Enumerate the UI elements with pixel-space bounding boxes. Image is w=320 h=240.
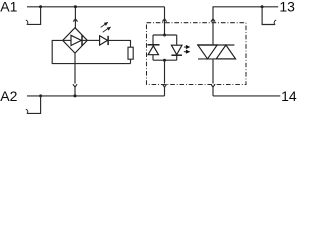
plug chevron top triac	[211, 19, 215, 22]
plug chevron top bridge	[73, 19, 77, 22]
triac left triangle	[198, 45, 217, 59]
opto light arrow 1	[184, 46, 187, 48]
wire opto bottom down	[164, 60, 166, 83]
wire opto top rail	[153, 34, 177, 36]
wire A1 horizontal	[27, 6, 165, 8]
svg-text:13: 13	[279, 0, 295, 15]
wire bridge bottom down	[74, 53, 76, 84]
socket hook 13	[274, 20, 276, 25]
wire bridge left loop	[52, 40, 130, 63]
wire resistor down	[130, 59, 132, 63]
svg-text:A2: A2	[0, 88, 17, 104]
socket hook A2	[26, 109, 28, 113]
bridge diode D1	[63, 39, 71, 41]
plug chevron top opto	[162, 19, 166, 22]
wire 13 to triac	[213, 7, 262, 45]
node bridge return junction	[74, 94, 77, 97]
resistor R1	[128, 47, 133, 59]
diode D4 (cathode down)	[176, 35, 178, 45]
wire input to opto top	[164, 7, 166, 35]
LED emission arrow 2	[103, 28, 109, 32]
wire 13 horizontal	[262, 6, 278, 8]
plug chevron bottom triac	[211, 84, 215, 87]
triac U1 top bar	[197, 44, 234, 46]
wire A1 stub down-left	[27, 7, 40, 25]
triac right triangle	[216, 45, 235, 59]
node opto bottom rail junction	[163, 59, 166, 62]
svg-text:A1: A1	[0, 0, 17, 15]
opto light arrow 2	[184, 51, 187, 53]
bridge rectifier diamond	[63, 28, 88, 53]
wire LED to resistor	[108, 40, 130, 47]
wire A2 horizontal	[27, 95, 165, 97]
svg-text:14: 14	[281, 88, 297, 104]
plug chevron bottom bridge	[73, 84, 77, 87]
socket hook A1	[26, 20, 28, 25]
module outline dash-dot box	[147, 23, 247, 85]
node bridge feed junction	[74, 5, 77, 8]
LED emission arrow 1	[101, 24, 106, 28]
node A2 stub junction	[39, 94, 42, 97]
plug chevron bottom opto	[162, 84, 166, 87]
diode D3 (cathode up)	[152, 35, 154, 45]
wire triac bottom down	[212, 59, 214, 84]
wire bridge feed down	[74, 7, 76, 28]
wire 14 horizontal	[213, 95, 280, 97]
LED D2	[87, 39, 99, 41]
wire A2 stub down-left	[27, 96, 40, 114]
node A1 stub junction	[39, 5, 42, 8]
wire 13 stub down-right	[262, 7, 275, 25]
triac bottom bar	[198, 58, 236, 60]
wire opto bottom rail	[153, 59, 177, 61]
node opto top rail junction	[163, 34, 166, 37]
node 13 stub junction	[261, 5, 264, 8]
